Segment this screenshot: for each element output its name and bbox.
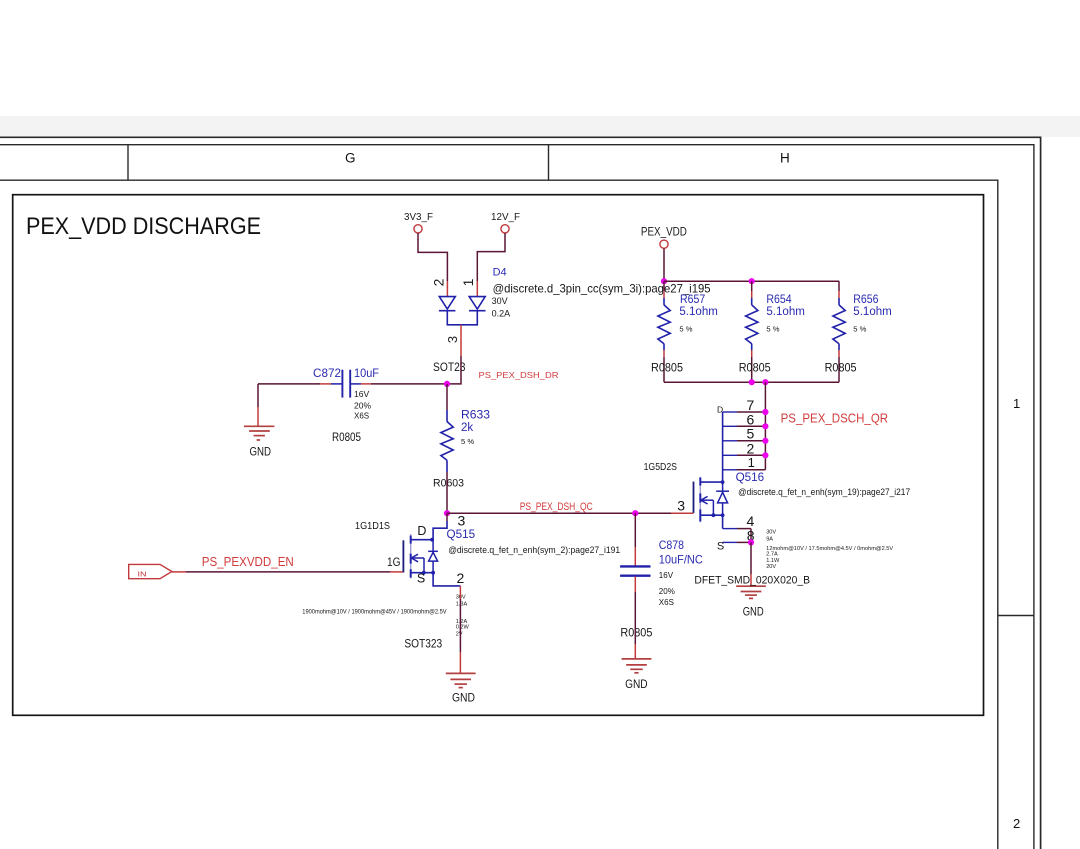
svg-text:2: 2 <box>1013 816 1020 831</box>
svg-text:5: 5 <box>747 426 755 442</box>
svg-text:2k: 2k <box>461 422 473 434</box>
svg-text:1G1D1S: 1G1D1S <box>355 520 390 532</box>
svg-text:5.1ohm: 5.1ohm <box>766 306 805 318</box>
svg-text:R0805: R0805 <box>739 362 771 374</box>
svg-text:1.1W: 1.1W <box>766 558 780 564</box>
svg-text:R0603: R0603 <box>433 478 464 490</box>
svg-text:D: D <box>717 405 723 415</box>
svg-text:20%: 20% <box>354 400 371 410</box>
junction dot Q516 pin 7 <box>762 409 768 415</box>
svg-text:G: G <box>345 151 356 166</box>
svg-text:1: 1 <box>748 455 755 470</box>
svg-text:5 %: 5 % <box>766 324 779 333</box>
svg-text:DFET_SMD_020X020_B: DFET_SMD_020X020_B <box>694 574 810 586</box>
svg-text:S: S <box>717 541 724 553</box>
svg-text:1900mohm@10V / 1900mohm@45V /: 1900mohm@10V / 1900mohm@45V / 1900mohm@2… <box>302 609 446 615</box>
resistor R657 <box>658 281 670 382</box>
svg-text:12mohm@10V / 17.5mohm@4.5V / 0: 12mohm@10V / 17.5mohm@4.5V / 0mohm@2.5V <box>766 546 893 552</box>
wire 3V3_F to D4 pin 2 <box>418 233 447 296</box>
svg-text:3V3_F: 3V3_F <box>404 212 433 223</box>
wire C878 to ground <box>634 577 636 659</box>
junction dot Q516 pin 2 <box>762 452 768 458</box>
svg-text:R0805: R0805 <box>620 627 652 639</box>
svg-text:R633: R633 <box>461 410 490 422</box>
svg-text:@discrete.d_3pin_cc(sym_3i):pa: @discrete.d_3pin_cc(sym_3i):page27_i195 <box>493 281 711 295</box>
terminal PEX_VDD <box>641 227 687 249</box>
junction dot bottom rail branch <box>762 379 768 385</box>
resistor R633 <box>441 410 453 472</box>
svg-text:D: D <box>417 524 426 538</box>
transistor Q516 source ladder <box>723 529 751 543</box>
svg-text:R654: R654 <box>766 294 792 306</box>
junction dot Q516 pin 6 <box>762 423 768 429</box>
svg-text:5.1ohm: 5.1ohm <box>679 306 718 318</box>
svg-text:2: 2 <box>430 278 446 286</box>
svg-text:0.2A: 0.2A <box>492 308 511 318</box>
wire C872 to ground <box>257 384 259 426</box>
svg-text:S: S <box>417 571 425 585</box>
svg-text:5.1ohm: 5.1ohm <box>853 306 892 318</box>
svg-text:@discrete.q_fet_n_enh(sym_19):: @discrete.q_fet_n_enh(sym_19):page27_i21… <box>738 487 910 498</box>
svg-text:1G: 1G <box>387 555 401 569</box>
port PS_PEXVDD_EN <box>129 564 172 578</box>
svg-text:2.7A: 2.7A <box>766 551 778 557</box>
svg-text:30V: 30V <box>766 530 776 536</box>
svg-text:0.2W: 0.2W <box>456 624 470 630</box>
wire R633 to node DSH_QC <box>446 472 448 513</box>
junction dot node DSH_DR <box>444 381 450 387</box>
svg-text:IN: IN <box>138 570 147 579</box>
diode D4 (dual common-cathode) <box>439 297 486 325</box>
svg-text:1.3A: 1.3A <box>456 601 468 607</box>
wire top rail <box>664 280 839 282</box>
svg-text:R657: R657 <box>680 294 705 306</box>
svg-text:R0805: R0805 <box>825 362 857 374</box>
transistor Q516 body <box>694 477 730 529</box>
wire branch down to Q516 drain ladder <box>764 382 766 470</box>
ground GND (Q516 source) <box>736 586 766 598</box>
svg-text:30V: 30V <box>492 296 508 306</box>
wire node DSH_DR horizontal <box>258 383 447 385</box>
svg-text:PS_PEX_DSCH_QR: PS_PEX_DSCH_QR <box>781 412 889 426</box>
svg-text:2V: 2V <box>456 631 463 637</box>
svg-text:16V: 16V <box>354 389 369 399</box>
wire bottom rail <box>664 381 839 383</box>
wire Q516 source to ground <box>750 542 752 586</box>
svg-text:GND: GND <box>250 446 272 458</box>
svg-text:X6S: X6S <box>354 412 369 421</box>
svg-text:R656: R656 <box>853 294 878 306</box>
wire PEX_VDD down <box>663 249 665 282</box>
junction dot Q515 drain node <box>444 510 450 516</box>
svg-text:D4: D4 <box>493 266 507 278</box>
wire 12V_F to D4 pin 1 <box>477 233 505 296</box>
svg-text:10uF/NC: 10uF/NC <box>659 552 703 566</box>
svg-text:20%: 20% <box>659 587 675 596</box>
svg-text:PS_PEX_DSH_DR: PS_PEX_DSH_DR <box>479 370 559 380</box>
junction dot C878 tap <box>632 510 638 516</box>
wire net PS_PEX_DSH_QC <box>447 512 694 514</box>
svg-text:PS_PEXVDD_EN: PS_PEXVDD_EN <box>202 555 294 569</box>
svg-text:Q515: Q515 <box>447 529 476 541</box>
svg-text:2: 2 <box>747 440 755 456</box>
resistor R656 <box>833 281 845 382</box>
resistor R654 <box>746 281 758 382</box>
terminal 3V3_F <box>404 212 433 233</box>
svg-text:3: 3 <box>458 512 466 528</box>
capacitor C872 <box>342 370 350 398</box>
svg-text:2: 2 <box>457 570 465 586</box>
svg-text:GND: GND <box>625 679 648 691</box>
junction dot Q516 source <box>748 539 754 545</box>
svg-text:H: H <box>780 151 790 166</box>
svg-text:SOT323: SOT323 <box>404 639 442 651</box>
svg-text:C872: C872 <box>313 366 341 380</box>
wire C878 tap down <box>634 513 636 565</box>
svg-text:1: 1 <box>460 278 476 286</box>
svg-text:PEX_VDD DISCHARGE: PEX_VDD DISCHARGE <box>26 213 261 240</box>
svg-text:10uF: 10uF <box>354 366 379 380</box>
junction dot rail left <box>661 278 667 284</box>
ground GND (Q515 source) <box>446 673 476 687</box>
svg-text:3: 3 <box>445 336 460 343</box>
wire node to R633 <box>446 384 448 410</box>
svg-text:5 %: 5 % <box>461 437 474 446</box>
svg-text:R0805: R0805 <box>651 362 683 374</box>
svg-text:PEX_VDD: PEX_VDD <box>641 227 687 239</box>
svg-text:GND: GND <box>743 606 764 618</box>
svg-text:3: 3 <box>677 497 685 513</box>
svg-text:@discrete.q_fet_n_enh(sym_2):p: @discrete.q_fet_n_enh(sym_2):page27_i191 <box>448 545 620 556</box>
svg-text:9A: 9A <box>766 537 773 543</box>
terminal 12V_F <box>491 212 520 233</box>
svg-text:R0805: R0805 <box>332 432 361 444</box>
svg-text:GND: GND <box>452 692 475 704</box>
ground GND (C872) <box>244 426 275 440</box>
junction dot bottom rail R654 <box>749 379 755 385</box>
svg-text:C878: C878 <box>659 538 684 552</box>
svg-text:12V_F: 12V_F <box>491 212 520 223</box>
wire Q515 source to ground <box>459 586 461 673</box>
transistor Q515 <box>403 513 460 586</box>
junction dot Q516 pin 5 <box>762 438 768 444</box>
capacitor C878 <box>620 566 650 575</box>
wire D4 pin 3 down to node DSH_DR <box>447 325 461 384</box>
svg-text:5 %: 5 % <box>679 324 692 333</box>
svg-text:5 %: 5 % <box>853 324 866 333</box>
junction dot rail R654 <box>749 278 755 284</box>
svg-text:1G5D2S: 1G5D2S <box>644 461 677 473</box>
svg-text:Q516: Q516 <box>736 472 765 484</box>
svg-text:PS_PEX_DSH_QC: PS_PEX_DSH_QC <box>520 501 593 513</box>
svg-text:X6S: X6S <box>659 598 674 607</box>
transistor Q516 drain ladder <box>723 412 766 482</box>
wire PS_PEXVDD_EN to Q515 gate <box>172 571 403 573</box>
svg-text:20V: 20V <box>766 564 776 570</box>
svg-text:1: 1 <box>1013 396 1020 411</box>
svg-text:16V: 16V <box>659 571 674 580</box>
ground GND (C878) <box>622 659 652 673</box>
